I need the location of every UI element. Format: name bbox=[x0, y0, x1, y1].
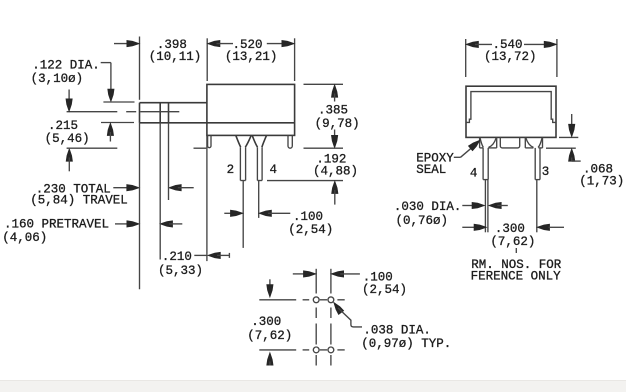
side view: left mounting peg bbox=[208, 135, 211, 147]
front view: pin 3 bbox=[535, 148, 540, 180]
dimension .192 (4,88) bbox=[267, 153, 358, 205]
svg-text:(0,76ø): (0,76ø) bbox=[396, 214, 449, 228]
svg-text:.300: .300 bbox=[495, 222, 525, 236]
bottom view: horizontal centerline bottom row bbox=[303, 349, 345, 351]
svg-text:.160 PRETRAVEL: .160 PRETRAVEL bbox=[4, 217, 109, 231]
front view: center standoff bbox=[500, 137, 519, 148]
side view: plunger centerline bbox=[67, 111, 180, 113]
terminal numbers reference note bbox=[471, 258, 562, 284]
side view: terminal funnel pin 2 bbox=[236, 136, 251, 148]
svg-text:(7,62): (7,62) bbox=[490, 235, 535, 249]
svg-text:.215: .215 bbox=[48, 119, 78, 133]
svg-text:(5,46): (5,46) bbox=[45, 132, 90, 146]
svg-text:3: 3 bbox=[542, 165, 550, 179]
front view: epoxy seal bell pin 3 bbox=[525, 137, 542, 148]
svg-text:(3,10ø): (3,10ø) bbox=[31, 72, 84, 86]
travel extension lines below plunger bbox=[140, 123, 207, 289]
dimension .300 (7,62) bottom view bbox=[247, 279, 296, 365]
side view: plunger bbox=[140, 103, 207, 123]
side view: terminal funnel pin 4 bbox=[252, 136, 266, 148]
dimension .100 (2,54) bottom view bbox=[293, 270, 407, 297]
svg-text:(13,72): (13,72) bbox=[484, 50, 537, 64]
dimension .215 (5,46) bbox=[45, 90, 90, 172]
bottom view: hole pattern circles bbox=[313, 297, 333, 353]
svg-text:(5,33): (5,33) bbox=[158, 264, 203, 278]
svg-text:.122 DIA.: .122 DIA. bbox=[32, 58, 100, 72]
svg-text:.100: .100 bbox=[293, 210, 323, 224]
svg-text:(10,11): (10,11) bbox=[149, 50, 202, 64]
dimension .398 (10,11) bbox=[114, 37, 201, 100]
bottom view: horizontal centerline top row bbox=[303, 299, 345, 301]
dimension .520 (13,21) bbox=[207, 38, 294, 81]
side view: pin 4 bbox=[257, 147, 262, 180]
dimension .160 pretravel bbox=[2, 217, 182, 245]
svg-text:.100: .100 bbox=[363, 270, 393, 284]
svg-text:(4,88): (4,88) bbox=[313, 165, 358, 179]
svg-text:.210: .210 bbox=[162, 250, 192, 264]
svg-text:.038 DIA.: .038 DIA. bbox=[363, 324, 431, 338]
svg-text:4: 4 bbox=[270, 163, 278, 177]
front view: housing outline bbox=[466, 86, 556, 137]
front view: epoxy seal bell pin 4 bbox=[480, 137, 497, 148]
svg-text:(2,54): (2,54) bbox=[362, 283, 407, 297]
svg-text:(9,78): (9,78) bbox=[315, 117, 360, 131]
dimension .122 DIA (3,10 dia) with leader bbox=[31, 58, 135, 141]
front view: pin 3 centerline bbox=[536, 180, 538, 233]
svg-text:SEAL: SEAL bbox=[416, 163, 446, 177]
svg-text:(5,84) TRAVEL: (5,84) TRAVEL bbox=[30, 194, 128, 208]
svg-text:(4,06): (4,06) bbox=[2, 231, 47, 245]
svg-text:.300: .300 bbox=[251, 315, 281, 329]
label pin number 2 bbox=[227, 163, 235, 177]
label pin number 4 front bbox=[470, 167, 478, 181]
bottom view: vertical centerline left bbox=[315, 269, 317, 366]
svg-text:(2,54): (2,54) bbox=[288, 223, 333, 237]
seating plane extension left bbox=[67, 147, 207, 149]
svg-text:(7,62): (7,62) bbox=[247, 329, 292, 343]
svg-text:4: 4 bbox=[470, 167, 478, 181]
dimension .300 (7,62) front pins bbox=[462, 222, 564, 249]
front view: cover inner line bbox=[466, 92, 556, 123]
dimension .385 (9,78) bbox=[304, 84, 360, 148]
dimension .230 total travel bbox=[30, 182, 194, 207]
dimension .210 (5,33) bbox=[158, 250, 229, 278]
svg-text:(0,97ø) TYP.: (0,97ø) TYP. bbox=[361, 337, 451, 351]
side view: pin 2 bbox=[240, 147, 245, 180]
svg-text:2: 2 bbox=[227, 163, 235, 177]
dimension .100 (2,54) side view pins bbox=[224, 181, 333, 248]
svg-text:.030 DIA.: .030 DIA. bbox=[394, 200, 462, 214]
stray tick below (7,62) bbox=[515, 248, 517, 253]
bottom view: vertical centerline right bbox=[330, 269, 332, 366]
side view: right mounting peg bbox=[288, 135, 292, 148]
bottom scan band bbox=[0, 381, 626, 392]
epoxy seal label with leader bbox=[416, 140, 480, 177]
label pin number 3 front bbox=[542, 165, 550, 179]
front view: pin 4 bbox=[483, 148, 488, 180]
dimension .030 DIA (0,76 dia) wire bbox=[394, 200, 508, 228]
dimension .540 (13,72) bbox=[466, 38, 557, 77]
front view: pin 4 wire .030 dia bbox=[485, 180, 488, 233]
dimension .038 DIA (0,97 dia) TYP with leader bbox=[334, 303, 451, 352]
label pin number 4 bbox=[270, 163, 278, 177]
svg-text:(1,73): (1,73) bbox=[579, 174, 624, 188]
svg-text:(13,21): (13,21) bbox=[225, 50, 278, 64]
svg-text:FERENCE ONLY: FERENCE ONLY bbox=[471, 270, 562, 284]
dimension .068 (1,73) standoff height bbox=[546, 114, 624, 188]
svg-text:.385: .385 bbox=[318, 104, 348, 118]
side view: switch housing body bbox=[140, 84, 295, 135]
